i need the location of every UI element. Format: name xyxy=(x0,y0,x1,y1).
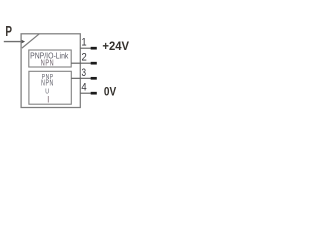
wire from output block 2 to pin 3 xyxy=(71,77,93,79)
adjustment diagonal line xyxy=(22,34,39,48)
pin 2 terminal dash xyxy=(91,62,97,65)
pin 1 wire xyxy=(80,47,93,49)
svg-text:+24V: +24V xyxy=(102,39,129,52)
sensor body box xyxy=(21,34,80,108)
programming arrow wire xyxy=(4,41,22,43)
svg-text:1: 1 xyxy=(81,37,86,49)
svg-text:I: I xyxy=(47,95,49,105)
pin 3 terminal dash xyxy=(91,77,97,80)
svg-text:NPN: NPN xyxy=(41,58,54,67)
wire from output block 1 to pin 2 xyxy=(71,62,93,64)
svg-text:2: 2 xyxy=(82,52,87,64)
svg-text:0V: 0V xyxy=(104,86,117,99)
svg-text:P: P xyxy=(5,23,12,39)
pin 1 terminal dash xyxy=(91,47,97,50)
output block 1 box xyxy=(29,50,71,67)
programming arrowhead xyxy=(22,40,26,44)
pin 4 terminal dash xyxy=(91,92,97,95)
svg-text:NPN: NPN xyxy=(41,79,54,87)
output block 2 box xyxy=(29,71,71,104)
svg-text:4: 4 xyxy=(81,82,86,94)
svg-text:3: 3 xyxy=(82,67,87,80)
pin 4 wire xyxy=(80,92,93,94)
